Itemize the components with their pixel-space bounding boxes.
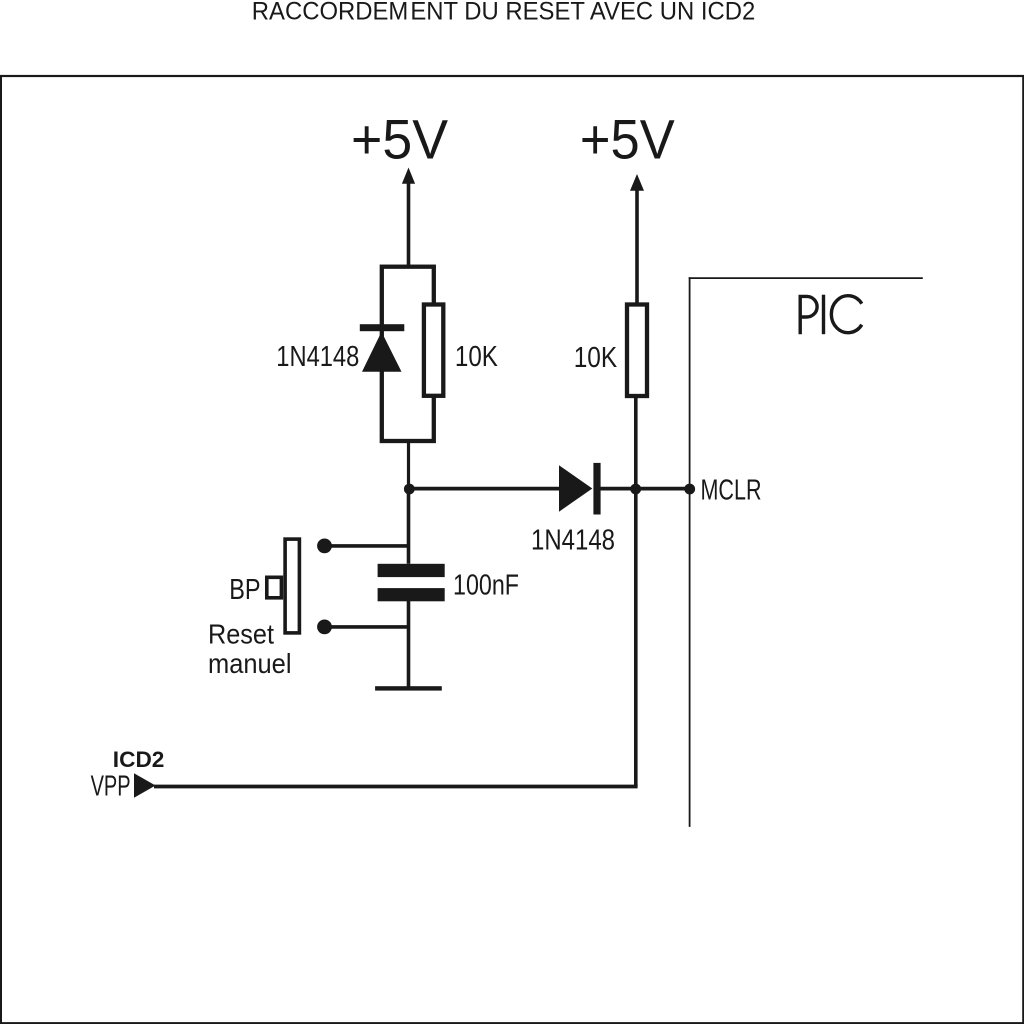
svg-text:100nF: 100nF bbox=[453, 570, 519, 602]
wire loop: diode D1 parallel with resistor R1 bbox=[382, 267, 434, 441]
svg-text:1N4148: 1N4148 bbox=[531, 525, 615, 557]
svg-text:VPP: VPP bbox=[91, 771, 131, 803]
node A junction dot bbox=[404, 484, 415, 495]
VPP connector arrow bbox=[134, 773, 156, 798]
wire: diode D2 cathode to MCLR pin bbox=[600, 487, 690, 491]
diode D1 triangle (anode, pointing up) bbox=[362, 332, 402, 372]
capacitor C1 bottom plate bbox=[378, 588, 445, 601]
button contact dot (bottom) bbox=[317, 620, 332, 635]
wire: resistor R2 bottom through node B down to VPP line bbox=[634, 396, 638, 787]
svg-text:RACCORDEM ENT DU RESET AVEC UN: RACCORDEM ENT DU RESET AVEC UN ICD2 bbox=[252, 0, 756, 26]
wire: node A down to capacitor C1 bbox=[407, 487, 411, 564]
MCLR pin dot bbox=[684, 484, 695, 495]
label PIC (thin stroke letters) bbox=[800, 295, 862, 335]
svg-text:ICD2: ICD2 bbox=[113, 747, 165, 772]
+5V arrow (right) bbox=[630, 174, 644, 191]
svg-text:MCLR: MCLR bbox=[701, 475, 762, 507]
diode D1 cathode bar bbox=[360, 324, 405, 331]
button contact dot (top) bbox=[317, 539, 332, 554]
wire: top contact to capacitor lead bbox=[330, 544, 410, 548]
svg-text:+5V: +5V bbox=[351, 108, 449, 171]
ground symbol bbox=[375, 686, 442, 690]
svg-text:10K: 10K bbox=[455, 341, 499, 373]
svg-text:BP: BP bbox=[229, 574, 260, 606]
svg-text:+5V: +5V bbox=[580, 108, 675, 171]
node B junction dot (VPP branch) bbox=[630, 484, 641, 495]
wire: node A to diode D2 anode bbox=[408, 487, 561, 491]
letter I bbox=[822, 295, 825, 335]
resistor R2 body (10K) bbox=[627, 305, 647, 397]
wire: VPP to node B (horizontal run) bbox=[154, 785, 638, 789]
wire: bottom contact to capacitor lead bbox=[330, 625, 410, 629]
wire: capacitor C1 to ground bbox=[407, 601, 411, 687]
svg-text:Reset: Reset bbox=[208, 619, 274, 650]
capacitor C1 top plate bbox=[378, 564, 445, 577]
svg-text:manuel: manuel bbox=[208, 648, 292, 679]
+5V arrow (left) bbox=[402, 168, 415, 184]
letter P bbox=[800, 296, 817, 334]
wire: right +5V arrow to resistor R2 bbox=[635, 189, 639, 304]
PIC block left edge bbox=[689, 277, 691, 827]
resistor R1 body (10K) bbox=[424, 305, 443, 396]
push-button BP body bbox=[285, 539, 299, 633]
PIC block top edge bbox=[689, 277, 923, 279]
letter C bbox=[831, 296, 861, 333]
diode D2 triangle (pointing right) bbox=[559, 465, 592, 512]
svg-text:1N4148: 1N4148 bbox=[276, 341, 359, 373]
wire: left +5V arrow to RC loop top bbox=[407, 182, 411, 268]
wire: loop bottom to node A bbox=[407, 439, 410, 491]
diode D2 cathode bar bbox=[593, 463, 600, 515]
push-button BP actuator bbox=[267, 577, 282, 598]
svg-text:10K: 10K bbox=[574, 342, 618, 374]
